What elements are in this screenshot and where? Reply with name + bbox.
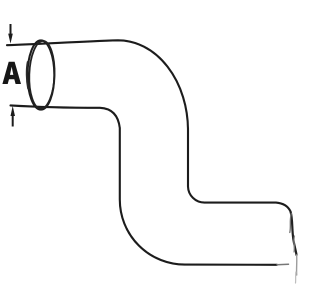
hose end opening ellipse left edge sketch bulge [27, 62, 28, 89]
hose end opening ellipse stroke 1 [28, 40, 55, 109]
bottom line fading end [277, 263, 289, 266]
hose end sketchy smudge [293, 236, 296, 252]
dimension arrow top shaft [10, 24, 12, 36]
hose end sketchy fade tail [296, 255, 298, 275]
label A [2, 62, 21, 84]
hose end opening ellipse stroke 2 (sketchy double line) [28, 40, 56, 109]
dimension arrow bottom head (pointing up) [11, 106, 16, 116]
hose end sketchy edge faint double stroke [290, 214, 292, 233]
dimension arrow bottom shaft [12, 114, 14, 127]
hose inner bottom outline [11, 105, 278, 264]
hose end sketchy edge dark [291, 212, 297, 256]
hose outer top outline [7, 40, 291, 211]
dimension arrow top head (pointing down) [8, 34, 13, 44]
hose end sketchy fade tail 2 [295, 272, 297, 283]
